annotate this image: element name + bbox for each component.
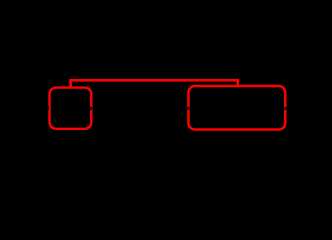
wire stub crossing node B right border (black notch)	[284, 107, 286, 110]
wire bracket connector between node A and node B	[71, 80, 238, 87]
node A (small rounded box)	[50, 88, 92, 129]
wire stub crossing node A right border (black notch)	[90, 107, 92, 110]
wire stub crossing node B left border (black notch)	[187, 107, 189, 110]
wire stub crossing node A left border (black notch)	[47, 106, 50, 109]
node B (large rounded box)	[188, 86, 285, 130]
